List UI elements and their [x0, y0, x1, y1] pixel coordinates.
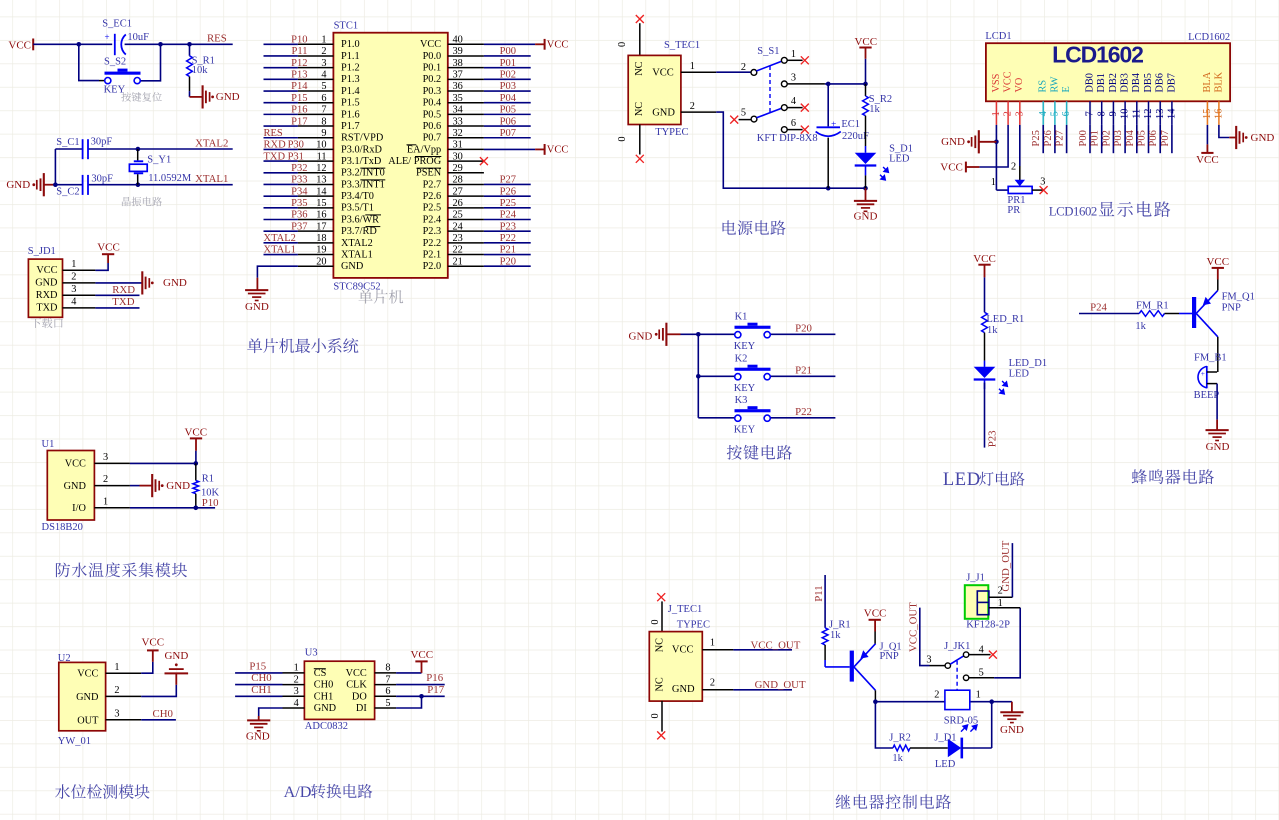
svg-text:S_C2: S_C2: [56, 187, 79, 198]
led LED_D1: [974, 358, 1047, 394]
net labels P32-P37: [291, 163, 308, 232]
svg-text:GND: GND: [216, 91, 240, 103]
power port VCC (adc): [410, 649, 433, 673]
svg-text:VCC: VCC: [652, 67, 674, 78]
wire pin5 to connector: [994, 608, 1020, 678]
wires mcu left: [264, 44, 298, 254]
no-connect switch pin6: [801, 126, 809, 134]
svg-text:VCC: VCC: [346, 668, 367, 679]
no-connect switch pin1: [801, 56, 809, 64]
svg-text:P01: P01: [1090, 130, 1101, 146]
svg-text:CH1: CH1: [314, 691, 333, 702]
svg-text:P1.2: P1.2: [341, 63, 360, 74]
ground GND (ds18b20): [140, 474, 191, 497]
svg-text:GND: GND: [672, 684, 695, 695]
svg-text:5: 5: [979, 668, 984, 679]
power port VCC (download): [97, 242, 120, 263]
svg-text:GND: GND: [1000, 724, 1024, 736]
svg-text:P27: P27: [500, 175, 516, 186]
wire DI loop: [396, 696, 421, 708]
svg-text:EC1: EC1: [841, 119, 860, 130]
wire pin1 to VCC: [95, 263, 108, 270]
comment text 下载口: [31, 318, 41, 328]
svg-text:S_S2: S_S2: [104, 57, 126, 68]
wire GND_OUT: [733, 689, 792, 691]
svg-text:GND: GND: [164, 650, 188, 662]
svg-text:P15: P15: [249, 661, 266, 673]
svg-text:LCD1602: LCD1602: [1049, 204, 1097, 218]
ground GND (mcu): [245, 278, 269, 314]
wire VO to wiper: [1019, 125, 1021, 180]
svg-text:VCC_OUT: VCC_OUT: [751, 639, 801, 651]
pin 2 U2: [106, 685, 142, 696]
no-connect top (S_TEC1): [636, 15, 644, 23]
svg-text:P1.1: P1.1: [341, 51, 360, 62]
net labels P27-P20: [500, 175, 517, 268]
svg-text:GND: GND: [245, 301, 269, 313]
svg-text:LED_D1: LED_D1: [1009, 358, 1048, 369]
pin 1 S_TEC1: [681, 61, 716, 72]
svg-text:LED: LED: [935, 759, 956, 770]
svg-text:P36: P36: [291, 210, 307, 221]
no-connect switch pin5: [730, 116, 738, 124]
svg-text:P31: P31: [288, 151, 304, 162]
title 电源电路: [723, 220, 736, 234]
switch K2 KEY: [734, 353, 771, 394]
svg-text:VCC: VCC: [672, 644, 694, 655]
svg-text:DB5: DB5: [1143, 73, 1154, 92]
wire pin2 to gnd: [141, 685, 176, 697]
title 单片机最小系统: [247, 338, 262, 353]
svg-text:P01: P01: [500, 58, 516, 69]
switch S_S1 KFT DIP-8X8: [739, 46, 825, 144]
svg-text:CH0: CH0: [153, 708, 173, 720]
svg-text:P26: P26: [500, 186, 516, 197]
svg-text:2: 2: [114, 685, 119, 696]
svg-text:RXD: RXD: [112, 284, 135, 296]
title 防水温度采集模块: [56, 563, 70, 578]
svg-text:2: 2: [103, 474, 108, 485]
power port VCC (power circuit): [854, 36, 877, 59]
svg-text:DB0: DB0: [1084, 73, 1095, 92]
power port VCC (ds18b20): [184, 426, 207, 451]
svg-text:NC: NC: [634, 61, 645, 75]
svg-text:TXD: TXD: [112, 296, 134, 308]
svg-text:GND: GND: [1206, 441, 1230, 453]
connector J_J1 KF128-2P: [965, 573, 1010, 631]
svg-text:VCC: VCC: [1196, 154, 1219, 166]
power port VCC (pin31): [535, 144, 568, 155]
svg-text:P03: P03: [500, 81, 516, 92]
title 继电器控制电路: [836, 794, 851, 808]
junction: [187, 42, 192, 47]
svg-text:P00: P00: [500, 46, 516, 57]
svg-text:0: 0: [617, 42, 628, 47]
svg-text:P34: P34: [291, 186, 308, 197]
wire XTAL2 net: [55, 148, 232, 150]
svg-text:7: 7: [385, 674, 390, 685]
pin 2 S_TEC1: [681, 101, 716, 112]
pin 3 U2: [106, 708, 142, 719]
svg-text:3: 3: [926, 654, 931, 665]
svg-text:PNP: PNP: [880, 651, 899, 662]
svg-text:CS: CS: [314, 668, 327, 679]
svg-text:P0.0: P0.0: [423, 51, 442, 62]
mcu U STC1 STC89C52: [333, 21, 447, 293]
junction: [696, 374, 701, 379]
svg-text:P15: P15: [291, 93, 307, 104]
svg-text:ALE/ PROG: ALE/ PROG: [388, 156, 441, 167]
svg-text:GND: GND: [35, 278, 58, 289]
svg-text:S_Y1: S_Y1: [147, 154, 171, 165]
wire coil row: [875, 701, 1012, 703]
buzzer FM_B1 BEEP: [1194, 353, 1227, 402]
svg-text:6: 6: [791, 118, 796, 129]
net labels P25 P26 P27: [1031, 130, 1065, 146]
svg-text:S_JD1: S_JD1: [28, 246, 56, 257]
pin 3: [63, 284, 96, 295]
no-connect top (J_TEC1): [657, 593, 665, 601]
wire gnd bus: [681, 334, 699, 418]
svg-text:P11: P11: [813, 585, 825, 601]
svg-text:LCD1: LCD1: [985, 31, 1011, 42]
junction: [158, 42, 163, 47]
wire cap branch left: [79, 44, 106, 80]
svg-text:VO: VO: [1014, 77, 1025, 92]
svg-text:1: 1: [114, 662, 119, 673]
svg-text:1: 1: [71, 259, 76, 270]
capacitor S_C1 30pF: [56, 137, 112, 160]
svg-text:P02: P02: [500, 70, 516, 81]
svg-text:P0.4: P0.4: [423, 98, 442, 109]
ground GND (lcd left): [941, 130, 996, 153]
svg-text:BEEP: BEEP: [1194, 390, 1220, 401]
wire pin1 to P10: [130, 507, 215, 509]
svg-text:EA/Vpp: EA/Vpp: [407, 144, 441, 155]
potentiometer PR1 PR: [991, 162, 1046, 217]
junction: [873, 699, 878, 704]
wire key row K3 left: [698, 417, 734, 419]
svg-text:PNP: PNP: [1222, 302, 1241, 313]
svg-text:P17: P17: [427, 684, 444, 696]
svg-text:P0.7: P0.7: [423, 133, 442, 144]
led J_D1: [934, 733, 961, 770]
pin 0 top J_TEC1: [650, 601, 662, 632]
svg-text:XTAL2: XTAL2: [264, 233, 296, 244]
resistor S_R1 10k: [187, 44, 215, 97]
net labels RXD P30: [264, 140, 304, 151]
svg-text:P0.3: P0.3: [423, 86, 442, 97]
pin 1 U1: [94, 496, 129, 507]
svg-text:S_TEC1: S_TEC1: [664, 40, 700, 51]
power port VCC (yw01): [141, 636, 164, 661]
wire pin2 to gnd: [130, 485, 140, 487]
svg-text:VCC: VCC: [864, 607, 887, 619]
net labels P00-P07: [500, 46, 517, 139]
svg-text:VCC: VCC: [65, 459, 86, 470]
ground GND (buzzer): [1206, 420, 1230, 453]
svg-text:P06: P06: [500, 116, 516, 127]
svg-text:P05: P05: [500, 105, 516, 116]
svg-text:LED: LED: [1009, 369, 1030, 380]
svg-text:P3.4/T0: P3.4/T0: [341, 191, 374, 202]
svg-text:+: +: [831, 120, 836, 130]
svg-text:GND: GND: [652, 107, 675, 118]
svg-text:P05: P05: [1137, 130, 1148, 146]
connector S_TEC1 TYPEC: [628, 40, 700, 138]
svg-text:P23: P23: [986, 430, 998, 447]
relay coil SRD-05: [934, 689, 981, 731]
wire base: [825, 666, 850, 668]
svg-text:P3.7/RD: P3.7/RD: [341, 226, 377, 237]
svg-text:GND: GND: [163, 277, 187, 289]
svg-text:5: 5: [385, 698, 390, 709]
svg-text:P0.6: P0.6: [423, 121, 442, 132]
no-connect pin30: [480, 157, 488, 165]
title LED灯电路: [943, 470, 1025, 490]
wire cap branch right: [140, 44, 160, 81]
svg-text:3: 3: [1040, 176, 1045, 187]
svg-text:P12: P12: [291, 58, 307, 69]
svg-text:+: +: [105, 32, 110, 42]
svg-text:30pF: 30pF: [91, 174, 113, 185]
transistor FM_Q1 PNP: [1192, 290, 1255, 336]
svg-text:10k: 10k: [192, 65, 209, 76]
wire collector to buzzer: [1217, 337, 1219, 372]
svg-text:VCC: VCC: [1003, 71, 1014, 92]
pin 1: [63, 259, 96, 270]
net labels TXD P31: [264, 151, 304, 162]
svg-text:P2.7: P2.7: [423, 179, 442, 190]
svg-text:P3.3/INT1: P3.3/INT1: [341, 179, 385, 190]
svg-text:A/D: A/D: [284, 783, 312, 801]
svg-text:GND: GND: [629, 331, 653, 343]
pin 2 J_J1: [989, 586, 1013, 598]
connector S_JD1: [28, 246, 63, 318]
svg-text:NC: NC: [634, 102, 645, 116]
capacitor S_EC1 10uF: [102, 19, 149, 56]
svg-text:DB4: DB4: [1131, 73, 1142, 92]
ground GND (crystal): [6, 173, 55, 196]
switch K1 KEY: [734, 311, 771, 352]
connector J_TEC1 TYPEC: [649, 604, 710, 701]
svg-text:J_R1: J_R1: [829, 619, 851, 630]
resistor J_R2 1k: [889, 733, 948, 765]
svg-text:CH0: CH0: [314, 680, 333, 691]
wire VCC to resistor: [865, 59, 867, 84]
svg-text:GND_OUT: GND_OUT: [755, 679, 806, 691]
wire collector down: [874, 690, 876, 701]
pin 2 J_TEC1: [702, 677, 733, 689]
svg-text:1: 1: [710, 637, 715, 648]
svg-text:DS18B20: DS18B20: [42, 522, 83, 533]
svg-text:LED_R1: LED_R1: [986, 314, 1024, 325]
net labels P10-P17: [291, 35, 308, 128]
svg-text:GND: GND: [314, 703, 337, 714]
svg-text:K3: K3: [735, 395, 748, 406]
wire pin31 VCC: [484, 148, 535, 150]
pin 2: [63, 272, 96, 283]
svg-text:VCC: VCC: [973, 253, 996, 265]
svg-text:P2.1: P2.1: [423, 249, 442, 260]
junction: [863, 82, 868, 87]
svg-text:FM_B1: FM_B1: [1194, 353, 1227, 364]
title LCD1602显示电路: [1049, 201, 1171, 218]
svg-text:1: 1: [690, 61, 695, 72]
svg-text:STC89C52: STC89C52: [333, 281, 380, 292]
wire VCC to RES net: [33, 43, 233, 45]
svg-text:J_JK1: J_JK1: [944, 641, 970, 652]
svg-text:0: 0: [617, 136, 628, 141]
svg-text:P35: P35: [291, 198, 307, 209]
ground GND (relay): [1000, 702, 1024, 736]
svg-text:DB2: DB2: [1108, 73, 1119, 92]
svg-text:P3.0/RxD: P3.0/RxD: [341, 144, 382, 155]
junction: [77, 42, 82, 47]
junction: [826, 82, 831, 87]
svg-text:2: 2: [690, 101, 695, 112]
svg-text:VCC: VCC: [940, 162, 963, 174]
pin 4: [63, 297, 96, 308]
svg-text:1k: 1k: [987, 325, 998, 336]
wire diode to coil: [962, 702, 991, 748]
svg-text:LCD1602: LCD1602: [1188, 32, 1230, 43]
svg-text:P32: P32: [291, 163, 307, 174]
svg-text:1: 1: [791, 49, 796, 60]
svg-text:DB1: DB1: [1096, 73, 1107, 92]
svg-text:VCC: VCC: [97, 242, 120, 254]
wire BLA pin15: [1206, 125, 1208, 144]
power port VCC (lcd backlight): [1196, 144, 1219, 166]
junction: [136, 182, 141, 187]
svg-text:1: 1: [991, 177, 996, 188]
svg-text:P24: P24: [1090, 302, 1107, 314]
wire adc gnd: [259, 708, 283, 716]
svg-text:P24: P24: [500, 210, 517, 221]
comment text 按键复位: [121, 92, 131, 101]
svg-text:VCC: VCC: [77, 669, 98, 680]
title 水位检测模块: [55, 784, 70, 799]
svg-text:P1.4: P1.4: [341, 86, 360, 97]
adc pins right: [375, 663, 397, 709]
ground GND (lcd right): [1229, 126, 1274, 149]
svg-text:1k: 1k: [869, 104, 880, 115]
svg-text:P1.6: P1.6: [341, 109, 360, 120]
svg-text:NC: NC: [655, 638, 666, 652]
svg-text:P25: P25: [1031, 130, 1042, 146]
svg-text:3: 3: [103, 452, 108, 463]
no-connect J_JK1 pin4: [989, 651, 997, 659]
svg-text:K2: K2: [735, 353, 748, 364]
wire pin2 to GND: [95, 282, 141, 284]
pin 1 J_TEC1: [702, 637, 733, 649]
svg-text:NC: NC: [655, 677, 666, 691]
svg-text:1: 1: [103, 496, 108, 507]
junction: [863, 186, 868, 191]
svg-text:P3.1/TxD: P3.1/TxD: [341, 156, 382, 167]
lcd pin stubs: [996, 101, 1219, 125]
svg-text:LCD1602: LCD1602: [1052, 41, 1143, 67]
svg-text:6: 6: [385, 686, 390, 697]
mcu pin numbers right: [453, 35, 463, 268]
wire CH0: [235, 684, 282, 686]
svg-text:VCC: VCC: [8, 39, 31, 51]
wire VCC_OUT: [733, 649, 792, 651]
ground GND (download): [142, 271, 187, 294]
junction: [994, 140, 999, 145]
no-connect bottom (J_TEC1): [657, 731, 665, 739]
svg-text:CH0: CH0: [251, 672, 271, 684]
svg-text:DI: DI: [356, 703, 367, 714]
wire buzzer to gnd: [1216, 384, 1218, 420]
svg-text:P3.2/INT0: P3.2/INT0: [341, 168, 385, 179]
no-connect bottom (S_TEC1): [636, 155, 644, 163]
wire CH1: [235, 695, 282, 697]
svg-text:2: 2: [1011, 162, 1016, 173]
ground GND (reset): [190, 85, 240, 108]
resistor LED_R1 1k: [982, 312, 1025, 367]
wire led to P23: [984, 383, 986, 448]
svg-text:4: 4: [791, 96, 796, 107]
svg-text:GND_OUT: GND_OUT: [1000, 540, 1012, 591]
svg-text:E: E: [1061, 86, 1072, 92]
svg-text:0: 0: [650, 619, 661, 624]
svg-text:P21: P21: [500, 245, 516, 256]
svg-text:TYPEC: TYPEC: [655, 127, 688, 138]
svg-text:P2.4: P2.4: [423, 214, 442, 225]
svg-text:P10: P10: [291, 35, 307, 46]
resistor FM_R1 1k: [1135, 300, 1192, 332]
svg-text:P14: P14: [291, 81, 308, 92]
svg-text:TYPEC: TYPEC: [677, 619, 710, 630]
svg-text:4: 4: [71, 297, 76, 308]
svg-text:P06: P06: [1148, 130, 1159, 146]
svg-text:P27: P27: [1055, 130, 1066, 146]
svg-text:XTAL1: XTAL1: [341, 249, 373, 260]
mcu pin names right: [388, 39, 441, 272]
transistor J_Q1 PNP: [850, 641, 902, 690]
wire key row K1 right: [771, 333, 835, 335]
svg-text:RST/VPD: RST/VPD: [341, 133, 384, 144]
svg-text:VCC_OUT: VCC_OUT: [907, 602, 919, 652]
svg-text:VCC: VCC: [1206, 256, 1229, 268]
svg-text:1: 1: [294, 663, 299, 674]
svg-text:P04: P04: [1125, 129, 1136, 146]
svg-text:RES: RES: [264, 128, 283, 139]
svg-text:P17: P17: [291, 116, 307, 127]
svg-text:STC1: STC1: [334, 21, 359, 32]
pin 3 U1: [94, 452, 129, 463]
svg-text:KEY: KEY: [104, 84, 126, 95]
svg-text:XTAL1: XTAL1: [195, 173, 228, 185]
wire pin3 to VCC rail: [825, 83, 866, 85]
svg-text:P1.0: P1.0: [341, 39, 360, 50]
svg-text:3: 3: [791, 73, 796, 84]
svg-text:2: 2: [710, 677, 715, 688]
power port VCC (led): [973, 253, 996, 278]
svg-text:P25: P25: [500, 198, 516, 209]
svg-text:DB6: DB6: [1155, 73, 1166, 92]
svg-text:P20: P20: [795, 322, 812, 334]
wire DO / P17: [396, 695, 445, 697]
wire mcu GND pin20: [257, 266, 298, 277]
mcu pin stubs left: [298, 44, 334, 266]
crystal S_Y1 11.0592M: [129, 149, 192, 185]
svg-text:FM_Q1: FM_Q1: [1222, 291, 1255, 302]
svg-text:XTAL2: XTAL2: [341, 238, 373, 249]
svg-text:11.0592M: 11.0592M: [148, 173, 192, 184]
wires mcu right: [484, 56, 531, 266]
